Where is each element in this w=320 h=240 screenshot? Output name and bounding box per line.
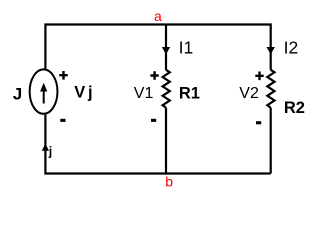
svg-text:J: J (13, 85, 22, 104)
resistor R2 zigzag (267, 70, 274, 108)
minus sign of Vj (60, 119, 65, 122)
current arrow j (up, on left bottom branch) (42, 144, 49, 151)
svg-text:I2: I2 (284, 38, 299, 58)
svg-text:V: V (74, 83, 85, 101)
svg-text:V2: V2 (239, 85, 259, 102)
svg-text:R2: R2 (284, 99, 305, 117)
svg-text:a: a (154, 8, 162, 24)
svg-text:j: j (87, 83, 93, 101)
current arrow I1 (down, on middle branch) (162, 47, 170, 54)
wire: middle branch from node a down to R1 (165, 25, 167, 70)
plus sign of Vj (59, 71, 67, 80)
wire: middle branch from R1 down to node b (165, 108, 167, 175)
wire: bottom rail from J branch to R2 branch (45, 115, 270, 174)
svg-text:V1: V1 (134, 85, 154, 102)
svg-text:b: b (165, 174, 173, 190)
current arrow I2 (down, on right branch) (267, 47, 275, 54)
wire: right branch from R2 down to bottom rail (270, 108, 272, 174)
minus sign of V2 (256, 121, 261, 124)
svg-text:j: j (48, 145, 52, 159)
wire: top rail from J branch to R2 branch with corner bends (45, 25, 270, 70)
svg-text:R1: R1 (179, 84, 200, 102)
minus sign of V1 (151, 119, 156, 122)
current source J: internal up arrow (40, 83, 47, 104)
plus sign of V1 (150, 71, 158, 80)
svg-text:I1: I1 (179, 38, 194, 58)
current source J: ellipse body (30, 69, 58, 113)
resistor R1 zigzag (163, 70, 170, 108)
plus sign of V2 (255, 72, 263, 81)
